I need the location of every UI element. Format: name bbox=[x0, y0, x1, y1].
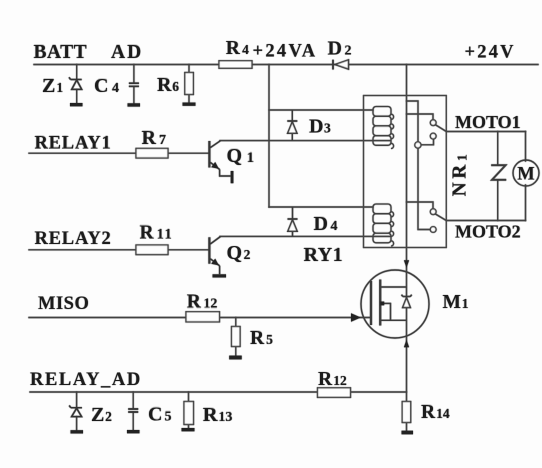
ground Z1 bbox=[70, 103, 83, 106]
wire varistor branch bbox=[497, 132, 499, 221]
resistor R7 bbox=[136, 148, 168, 158]
wire contact link H2 bbox=[407, 202, 434, 209]
wire R6 lead bbox=[188, 65, 190, 103]
wire drain-source chain vertical bbox=[406, 65, 408, 402]
zener Z1 bbox=[69, 77, 82, 89]
capacitor C5 bbox=[128, 409, 138, 412]
ground C4 bbox=[128, 103, 141, 106]
wire MOTO2 bbox=[446, 220, 525, 222]
ground Q2 bbox=[213, 274, 227, 277]
resistor R13 bbox=[184, 402, 194, 425]
diode D2 bbox=[333, 60, 349, 70]
wire BATT_AD top rail bbox=[34, 64, 538, 66]
varistor NR1 (Z symbol) bbox=[491, 165, 506, 180]
wire D4 top rail bbox=[269, 206, 373, 208]
wire relay feed jog bbox=[407, 101, 431, 230]
ground Q1 (bar) bbox=[231, 171, 234, 183]
resistor R11 bbox=[136, 245, 168, 255]
relay RY1 box bbox=[364, 96, 447, 248]
wire armature bottom bbox=[435, 214, 446, 221]
ground Z2 bbox=[71, 430, 84, 433]
resistor R5 bbox=[232, 327, 241, 347]
zener Z2 bbox=[69, 406, 82, 417]
wire RELAY_AD bbox=[30, 391, 407, 393]
resistor R14 bbox=[402, 402, 411, 423]
resistor R12 RELAY_AD bbox=[318, 388, 351, 398]
capacitor C4 bbox=[129, 83, 139, 86]
wire C5 lead bbox=[132, 392, 134, 430]
wire +24VA vertical bbox=[268, 65, 270, 208]
source arrow bbox=[404, 340, 409, 348]
contact A1 bbox=[430, 120, 436, 126]
wire motor branch bbox=[525, 132, 527, 221]
ground C5 bbox=[127, 430, 140, 433]
mosfet body diode bbox=[402, 295, 412, 308]
wire RELAY1 bbox=[29, 152, 209, 154]
wire Z1 lead bbox=[76, 65, 78, 103]
wire D3 top rail bbox=[269, 109, 373, 111]
mosfet M1 bbox=[361, 270, 429, 338]
gate arrow bbox=[351, 313, 361, 322]
wire Q2 collector rail bbox=[220, 235, 391, 237]
ground R14 bbox=[402, 431, 414, 435]
contact B1 bbox=[430, 133, 436, 139]
resistor R12 MISO bbox=[186, 312, 220, 322]
ground R5 bbox=[229, 356, 242, 360]
wire armature top bbox=[435, 125, 446, 132]
wire C4 lead bbox=[133, 65, 135, 104]
contact A2 bbox=[430, 209, 436, 215]
ground R6 bbox=[183, 103, 196, 106]
contact C1 bbox=[415, 142, 421, 148]
diode D3 bbox=[287, 110, 297, 141]
wire RELAY2 bbox=[29, 249, 209, 251]
wire Q1 collector rail bbox=[220, 140, 391, 142]
wire MISO bbox=[29, 317, 371, 319]
wire Z2 lead bbox=[76, 392, 78, 430]
relay contact circles bbox=[415, 120, 436, 233]
diode D4 bbox=[288, 207, 298, 236]
wire R14 bottom lead bbox=[406, 423, 408, 431]
contact B2 bbox=[430, 227, 436, 233]
resistor R6 bbox=[185, 73, 194, 95]
wire contact link H1 bbox=[407, 114, 434, 120]
ground R13 bbox=[182, 428, 195, 431]
drain arrow bbox=[404, 260, 409, 268]
wire R5 lead bbox=[235, 318, 237, 356]
wire MOTO1 bbox=[446, 131, 525, 133]
wire C1-B1 link bbox=[421, 139, 434, 145]
wire R13 lead bbox=[188, 392, 190, 428]
resistor R4 bbox=[219, 61, 252, 69]
relay coil top bbox=[373, 107, 394, 149]
relay coil bottom bbox=[373, 204, 394, 246]
transistor Q1 bbox=[209, 141, 230, 176]
transistor Q2 bbox=[209, 237, 220, 275]
motor M circle bbox=[513, 160, 539, 186]
